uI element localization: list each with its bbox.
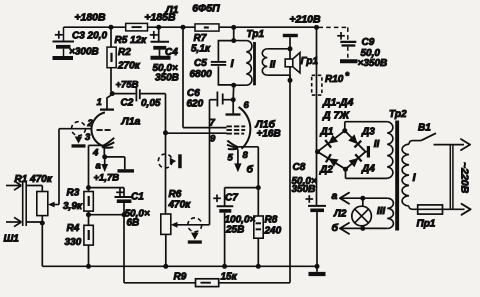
- chassis bar speaker: [283, 34, 298, 37]
- arrow heater b: [237, 150, 239, 165]
- svg-text:9: 9: [210, 134, 216, 145]
- wire +210V down: [316, 27, 318, 151]
- node C7 ground: [222, 264, 227, 269]
- diode D1: [328, 135, 338, 144]
- node anode L1a: [110, 91, 115, 96]
- svg-text:350В: 350В: [155, 72, 179, 83]
- capacitor C9: [340, 41, 356, 43]
- wire winding III bottom: [342, 227, 388, 229]
- svg-text:270к: 270к: [117, 60, 141, 71]
- svg-text:С9: С9: [362, 37, 375, 48]
- wire grid node to R6: [165, 133, 167, 214]
- svg-text:R1 470к: R1 470к: [15, 174, 53, 185]
- svg-text:R10: R10: [325, 74, 344, 85]
- wire bridge top to Tr2: [344, 122, 346, 131]
- svg-text:Д3: Д3: [361, 127, 375, 138]
- svg-text:*: *: [345, 71, 350, 82]
- wire R7 to Tr1: [233, 27, 235, 40]
- capacitor C3: [63, 27, 65, 41]
- wire R1 wiper to grid: [58, 129, 60, 205]
- node Tr1 primary bottom: [231, 83, 236, 88]
- svg-text:×300В: ×300В: [69, 47, 99, 58]
- node +185V junction: [156, 25, 161, 30]
- svg-text:240: 240: [264, 226, 282, 237]
- shield screen 3: [188, 218, 202, 232]
- node C1 bottom: [122, 212, 127, 217]
- svg-text:б: б: [247, 164, 254, 176]
- svg-text:7: 7: [210, 118, 216, 129]
- svg-text:6Ф5П: 6Ф5П: [192, 3, 220, 15]
- svg-text:6800: 6800: [190, 69, 213, 80]
- svg-text:1: 1: [97, 97, 102, 108]
- ground main: [316, 266, 318, 272]
- node speaker bottom: [288, 78, 293, 83]
- svg-text:R2: R2: [118, 47, 131, 58]
- speaker Gr1: [285, 59, 293, 67]
- arrow b: [340, 223, 349, 229]
- arrow input top: [6, 185, 21, 187]
- svg-text:3: 3: [85, 132, 91, 143]
- transformer Tr2 winding II: [387, 122, 393, 179]
- svg-text:Д 7Ж: Д 7Ж: [322, 110, 350, 122]
- node R4 ground: [86, 264, 91, 269]
- wire dashed to C9: [319, 26, 348, 28]
- node R8 ground: [256, 264, 261, 269]
- wire cathode to C7: [225, 187, 259, 189]
- wire mains top: [434, 144, 465, 146]
- svg-text:а: а: [332, 190, 338, 202]
- wire +185V to screen grid: [182, 27, 184, 127]
- resistor R2: [110, 27, 112, 47]
- svg-text:I: I: [230, 58, 234, 70]
- svg-text:+210В: +210В: [289, 14, 321, 26]
- svg-text:×350В: ×350В: [358, 58, 388, 69]
- svg-text:4: 4: [92, 148, 99, 159]
- wire +180V rail top: [64, 26, 126, 28]
- svg-text:а: а: [96, 161, 101, 172]
- svg-text:350В: 350В: [292, 184, 316, 195]
- diode D3: [348, 134, 358, 144]
- cathode L1a: [102, 138, 114, 146]
- node Tr1 primary top: [231, 38, 236, 43]
- chassis bar L1a: [118, 169, 135, 172]
- diode D2: [328, 158, 338, 167]
- node R7 output: [231, 25, 236, 30]
- switch V1: [421, 133, 436, 140]
- svg-text:С3 20,0: С3 20,0: [72, 31, 107, 42]
- potentiometer R1: [37, 192, 48, 216]
- svg-text:R9: R9: [174, 272, 187, 283]
- wire speaker bottom: [289, 67, 291, 81]
- wire anode lead: [107, 95, 112, 109]
- transformer Tr1 winding II: [262, 49, 267, 75]
- plug mains: [449, 145, 451, 210]
- svg-text:Тр1: Тр1: [247, 29, 265, 40]
- ground C3: [53, 56, 74, 60]
- arrow mains top: [461, 139, 470, 145]
- svg-text:~220В: ~220В: [459, 162, 471, 194]
- svg-text:8: 8: [243, 150, 249, 161]
- node R3 R4: [86, 212, 91, 217]
- wire winding I bottom lead: [409, 206, 418, 209]
- tube L1b envelope: [239, 107, 251, 149]
- resistor R9: [196, 279, 219, 287]
- transformer Tr2 winding I: [402, 144, 409, 206]
- capacitor C5: [218, 41, 233, 61]
- resistor R10 dashed: [312, 75, 322, 95]
- capacitor C6: [210, 99, 217, 101]
- wire to speaker: [289, 49, 291, 59]
- wire grid L1b: [166, 132, 227, 134]
- arrow heater a: [104, 157, 106, 165]
- wire wiper to C6: [209, 100, 211, 225]
- svg-text:Пр1: Пр1: [417, 219, 436, 230]
- node anode L1b: [231, 97, 236, 102]
- wire winding I top lead: [409, 141, 421, 145]
- wire R1 to ground rail: [41, 225, 43, 266]
- node cathode R3: [86, 185, 91, 190]
- anode plate L1b: [226, 113, 241, 115]
- svg-text:0,05: 0,05: [141, 98, 161, 109]
- tube L1a envelope: [91, 112, 104, 146]
- wire winding III top: [342, 197, 388, 199]
- svg-text:Тр2: Тр2: [389, 109, 407, 120]
- svg-text:+185В: +185В: [144, 12, 176, 24]
- wire C1 to R3R4: [89, 214, 125, 216]
- anode plate L1a: [100, 108, 114, 110]
- node bridge bottom: [343, 167, 348, 172]
- resistor R7: [195, 24, 219, 31]
- svg-text:5: 5: [228, 153, 234, 164]
- svg-text:Д1-Д4: Д1-Д4: [322, 97, 354, 109]
- node R1 bottom: [40, 221, 45, 226]
- svg-text:5,1к: 5,1к: [191, 43, 211, 54]
- diode D4: [349, 158, 359, 167]
- svg-text:+180В: +180В: [74, 12, 106, 24]
- svg-text:С1: С1: [131, 192, 144, 203]
- potentiometer R6: [161, 214, 171, 234]
- svg-text:Д1: Д1: [320, 127, 334, 138]
- wire heater to chassis: [105, 156, 125, 158]
- node bridge left: [315, 149, 320, 154]
- svg-text:I: I: [412, 172, 416, 184]
- svg-text:III: III: [377, 206, 386, 217]
- grids L1b: [227, 125, 232, 127]
- svg-text:+1,7В: +1,7В: [94, 173, 120, 184]
- svg-text:В1: В1: [418, 123, 431, 134]
- wire C2 to grid node: [165, 94, 167, 133]
- capacitor C7: [217, 205, 234, 207]
- svg-text:С4: С4: [165, 47, 178, 58]
- svg-text:R3: R3: [67, 188, 80, 199]
- svg-text:R8: R8: [265, 215, 278, 226]
- transformer Tr1 winding I: [234, 40, 247, 42]
- capacitor C1: [89, 187, 125, 189]
- capacitor C4: [158, 27, 160, 41]
- node heater L1a: [102, 154, 107, 159]
- svg-text:6В: 6В: [127, 218, 140, 229]
- wire R6 bottom: [165, 234, 167, 266]
- svg-text:25В: 25В: [225, 225, 244, 236]
- node bridge top: [342, 128, 347, 133]
- resistor R5: [126, 23, 148, 31]
- wire bridge diamond: [318, 131, 366, 170]
- svg-text:3,9к: 3,9к: [63, 201, 83, 212]
- wiper R1: [54, 204, 59, 206]
- svg-text:470к: 470к: [168, 200, 192, 211]
- svg-text:2: 2: [87, 118, 94, 129]
- node R6 ground: [163, 264, 168, 269]
- wire cathode L1b pin8: [238, 146, 258, 148]
- svg-text:+75В: +75В: [116, 80, 139, 91]
- svg-text:С7: С7: [225, 193, 238, 204]
- wire heater L1a: [103, 148, 105, 157]
- wire bridge bottom to Tr2: [345, 169, 347, 178]
- svg-text:R6: R6: [169, 189, 182, 200]
- cathode L1b: [227, 141, 238, 148]
- ground C4: [151, 56, 171, 60]
- node +180V junction: [109, 25, 114, 30]
- wire cathode L1a: [89, 144, 102, 146]
- svg-text:С6: С6: [187, 88, 200, 99]
- svg-text:С2: С2: [121, 97, 134, 108]
- capacitor C2: [112, 93, 135, 95]
- arrow mains bottom: [462, 204, 471, 210]
- svg-text:Л1а: Л1а: [121, 116, 141, 128]
- node cathode L1b: [256, 185, 261, 190]
- shield screen 2: [158, 154, 172, 168]
- svg-text:R4: R4: [67, 223, 80, 234]
- node C8 ground: [315, 264, 320, 269]
- node grid L1b: [163, 130, 168, 135]
- node speaker top: [288, 46, 293, 51]
- svg-text:Л2: Л2: [333, 209, 347, 220]
- arrow a: [340, 193, 349, 199]
- svg-text:+16В: +16В: [257, 128, 281, 139]
- wire feedback vertical: [289, 80, 291, 282]
- svg-text:R5 12к: R5 12к: [115, 35, 148, 46]
- svg-text:С5: С5: [194, 58, 207, 69]
- svg-text:Ш1: Ш1: [4, 234, 20, 245]
- svg-text:II: II: [270, 60, 276, 71]
- resistor R8: [257, 188, 259, 216]
- svg-text:С8: С8: [293, 162, 306, 173]
- shield screen 1: [72, 122, 86, 136]
- wire anode lead L1b: [232, 100, 234, 114]
- core Tr1: [253, 42, 256, 85]
- arrow input bottom: [6, 221, 21, 223]
- capacitor C8: [316, 152, 318, 206]
- ground C9: [340, 59, 358, 63]
- wire Tr1 to anode: [232, 85, 235, 100]
- svg-text:Д4: Д4: [361, 164, 375, 175]
- svg-text:620: 620: [187, 99, 204, 110]
- core Tr2: [395, 121, 399, 231]
- svg-text:Д2: Д2: [319, 164, 333, 175]
- svg-text:б: б: [332, 222, 339, 234]
- grid L1a: [97, 129, 103, 131]
- transformer Tr2 winding III: [387, 198, 393, 228]
- connector Sh1: [22, 181, 24, 226]
- node lamp bottom: [360, 226, 365, 231]
- chassis bar bridge: [366, 151, 368, 153]
- lamp L2: [352, 206, 372, 226]
- svg-text:6: 6: [244, 100, 250, 111]
- resistor R4: [88, 215, 90, 226]
- fuse Pr1: [418, 208, 465, 210]
- resistor R3: [88, 188, 90, 192]
- wire ground rail: [42, 265, 317, 267]
- node lamp top: [360, 196, 365, 201]
- svg-text:330: 330: [65, 237, 82, 248]
- svg-text:15к: 15к: [221, 272, 238, 283]
- wire grid L1a pin2: [59, 128, 92, 130]
- svg-text:II: II: [374, 139, 380, 150]
- node +210V: [314, 25, 319, 30]
- wiper R6: [177, 224, 210, 226]
- wire feedback tap: [123, 215, 125, 283]
- node +185V to screen: [181, 25, 186, 30]
